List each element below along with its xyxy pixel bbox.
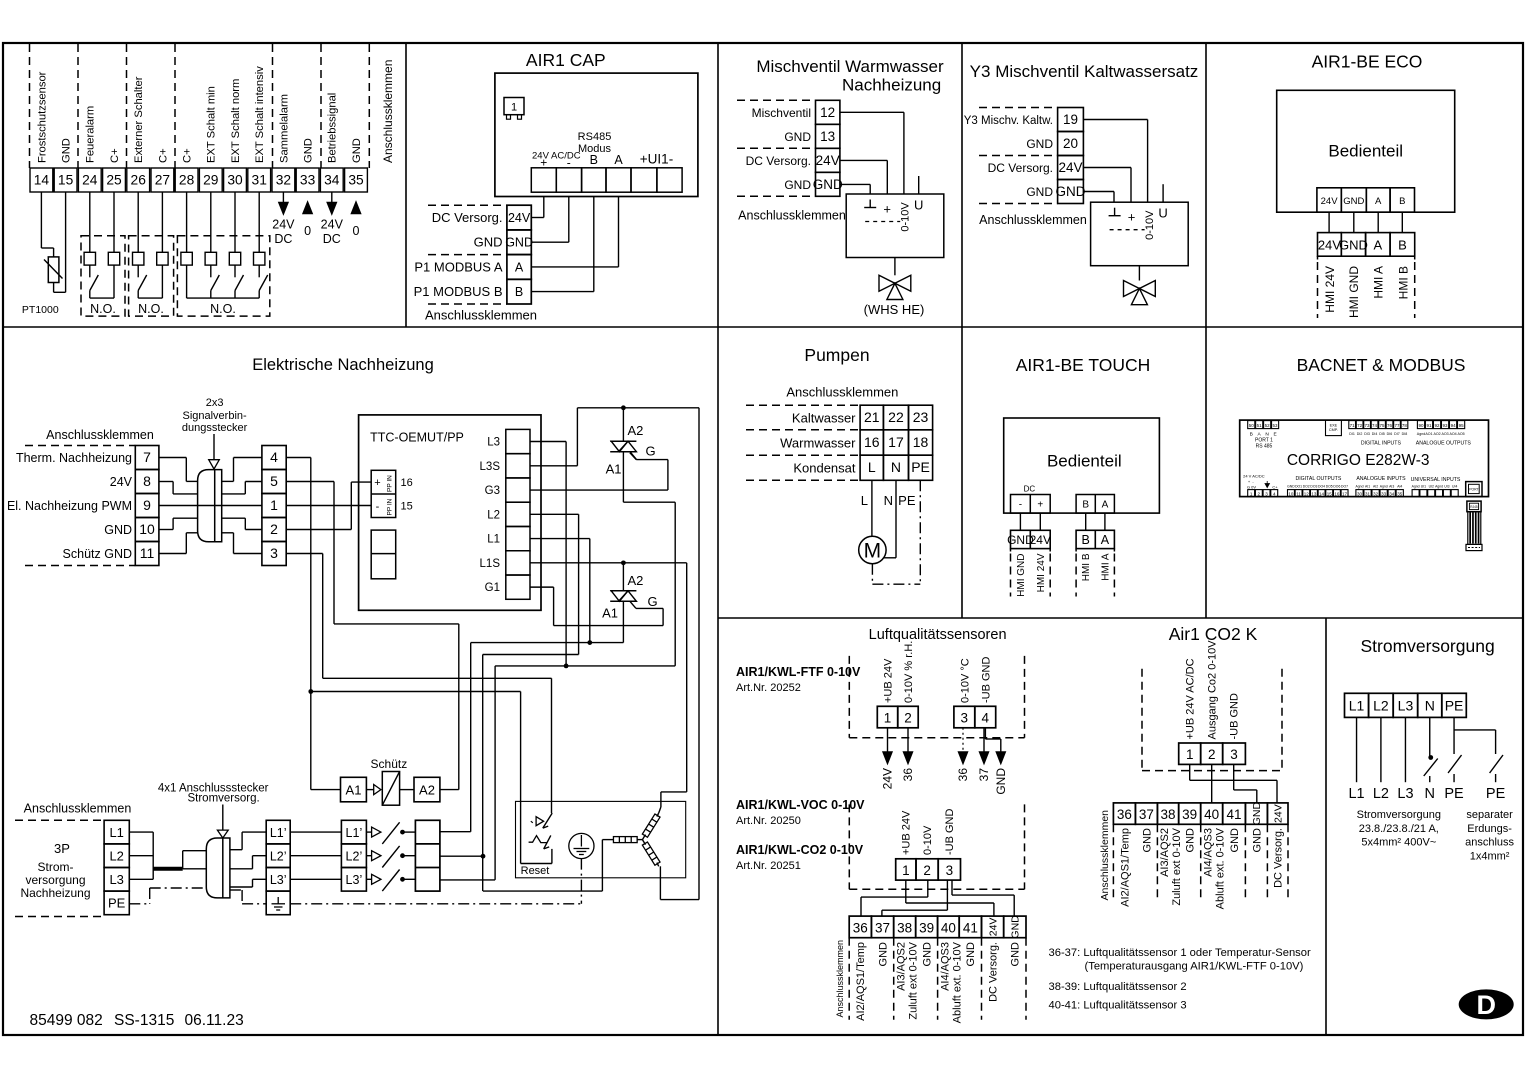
svg-text:5: 5 [270, 473, 278, 489]
svg-text:37: 37 [977, 768, 991, 782]
svg-text:Anschlussklemmen: Anschlussklemmen [24, 802, 132, 816]
svg-text:9: 9 [143, 497, 151, 513]
svg-text:85499 082: 85499 082 [30, 1012, 103, 1029]
svg-text:DO4: DO4 [1318, 484, 1325, 488]
svg-text:22: 22 [888, 409, 904, 425]
svg-text:Elektrische Nachheizung: Elektrische Nachheizung [252, 356, 434, 374]
svg-text:AIR1-BE TOUCH: AIR1-BE TOUCH [1016, 355, 1151, 375]
svg-text:DC Versorg.: DC Versorg. [746, 154, 811, 168]
svg-text:G3: G3 [485, 485, 500, 497]
svg-text:Ausgang Co2 0-10V: Ausgang Co2 0-10V [1207, 640, 1219, 740]
svg-text:23.8./23.8./21 A,: 23.8./23.8./21 A, [1359, 823, 1439, 835]
svg-text:C+: C+ [1272, 485, 1278, 490]
svg-text:+: + [1128, 210, 1136, 225]
svg-text:B: B [1082, 500, 1089, 511]
svg-text:38: 38 [897, 921, 912, 936]
svg-text:-UB GND: -UB GND [980, 657, 992, 704]
svg-text:PE: PE [898, 493, 916, 508]
svg-text:AI3/AQS2: AI3/AQS2 [896, 942, 908, 991]
svg-text:AI3/AQS2: AI3/AQS2 [1159, 828, 1171, 877]
svg-text:(Temperaturausgang AIR1/KWL-FT: (Temperaturausgang AIR1/KWL-FTF 0-10V) [1085, 960, 1304, 972]
svg-text:DO3: DO3 [1310, 484, 1317, 488]
svg-text:3P: 3P [54, 841, 70, 856]
svg-text:GND: GND [61, 138, 73, 163]
svg-text:10: 10 [139, 521, 155, 537]
svg-text:1: 1 [270, 497, 278, 513]
svg-text:36: 36 [956, 768, 970, 782]
svg-text:HMI A: HMI A [1100, 553, 1111, 581]
svg-text:19: 19 [1063, 112, 1078, 127]
svg-text:B: B [1399, 196, 1405, 207]
svg-text:DC Versorg.: DC Versorg. [987, 942, 999, 1002]
svg-text:Anschlussklemmen: Anschlussklemmen [1099, 810, 1111, 901]
svg-text:Anschlussklemmen: Anschlussklemmen [425, 308, 537, 323]
svg-text:Abluft ext. 0-10V: Abluft ext. 0-10V [951, 941, 963, 1023]
svg-text:35: 35 [1397, 491, 1403, 496]
svg-text:2x3: 2x3 [206, 397, 224, 409]
svg-text:+UB 24V: +UB 24V [882, 658, 894, 703]
svg-text:N: N [1425, 786, 1435, 802]
svg-text:DI5: DI5 [1379, 432, 1385, 436]
svg-text:L3: L3 [109, 872, 123, 887]
svg-text:1: 1 [884, 710, 892, 725]
svg-text:Anschlussklemmen: Anschlussklemmen [786, 385, 898, 400]
svg-text:2: 2 [1208, 747, 1216, 762]
svg-text:L1’: L1’ [346, 826, 363, 840]
svg-text:DC Versorg.: DC Versorg. [432, 210, 503, 225]
svg-text:24V: 24V [1318, 238, 1341, 253]
svg-text:31: 31 [252, 173, 267, 188]
svg-text:23: 23 [913, 409, 929, 425]
svg-text:PE: PE [108, 896, 126, 911]
svg-text:DC: DC [323, 232, 341, 246]
svg-text:GND: GND [1251, 828, 1263, 853]
svg-text:A: A [614, 153, 623, 167]
svg-text:E: E [1273, 431, 1276, 437]
svg-text:A: A [1102, 500, 1109, 511]
svg-text:HMI B: HMI B [1081, 553, 1092, 581]
svg-text:L: L [868, 459, 876, 475]
svg-text:24 V AC/DC: 24 V AC/DC [1243, 474, 1265, 479]
svg-text:Pumpen: Pumpen [804, 345, 869, 365]
svg-text:13: 13 [1311, 491, 1317, 496]
svg-text:7: 7 [143, 449, 151, 465]
svg-text:3: 3 [270, 545, 278, 561]
svg-text:SS-1315: SS-1315 [114, 1012, 174, 1029]
svg-text:EXE: EXE [1330, 424, 1338, 428]
svg-text:0: 0 [353, 224, 360, 238]
svg-text:A1: A1 [346, 782, 362, 797]
svg-text:15: 15 [401, 501, 413, 513]
svg-text:78: 78 [1402, 423, 1408, 428]
svg-text:29: 29 [203, 173, 219, 188]
svg-text:GND: GND [877, 942, 889, 967]
svg-text:AO1: AO1 [1425, 432, 1432, 436]
svg-text:36-37: Luftqualitätssensor 1 o: 36-37: Luftqualitätssensor 1 oder Temper… [1049, 947, 1312, 959]
svg-text:36: 36 [1117, 807, 1132, 822]
svg-text:24V: 24V [1321, 196, 1339, 207]
svg-text:N.O.: N.O. [138, 302, 164, 316]
svg-text:UI3: UI3 [1444, 484, 1449, 488]
svg-text:DI4: DI4 [1372, 432, 1378, 436]
svg-text:G: G [646, 444, 656, 459]
svg-text:90: 90 [1418, 423, 1424, 428]
svg-text:EXT Schalt min: EXT Schalt min [206, 86, 218, 163]
svg-text:C+: C+ [157, 148, 169, 163]
svg-text:12: 12 [820, 105, 835, 120]
svg-text:GND: GND [922, 942, 934, 967]
svg-text:24V: 24V [987, 918, 999, 937]
svg-text:50: 50 [1249, 423, 1255, 428]
svg-text:Anschlussklemmen: Anschlussklemmen [738, 209, 846, 223]
svg-text:A: A [1375, 196, 1382, 207]
svg-text:AI4/AQS3: AI4/AQS3 [939, 942, 951, 991]
svg-text:0-10V: 0-10V [1144, 210, 1156, 240]
svg-text:-UB GND: -UB GND [1228, 693, 1240, 740]
svg-text:5x4mm² 400V~: 5x4mm² 400V~ [1361, 837, 1436, 849]
svg-text:Art.Nr. 20252: Art.Nr. 20252 [736, 682, 801, 694]
svg-text:24V: 24V [1030, 533, 1051, 547]
svg-text:0: 0 [304, 224, 311, 238]
svg-text:Feueralarm: Feueralarm [85, 106, 97, 163]
svg-text:BACNET & MODBUS: BACNET & MODBUS [1297, 355, 1466, 375]
svg-text:A: A [1101, 533, 1110, 547]
svg-text:28: 28 [179, 173, 195, 188]
svg-text:L1: L1 [1349, 698, 1365, 714]
svg-text:24: 24 [82, 173, 98, 188]
svg-text:GND: GND [784, 130, 811, 144]
svg-text:74: 74 [1372, 423, 1378, 428]
svg-text:40: 40 [1204, 807, 1219, 822]
svg-text:3: 3 [1230, 747, 1238, 762]
svg-text:GND: GND [1287, 484, 1295, 488]
svg-text:24V: 24V [321, 218, 344, 232]
svg-text:UI1: UI1 [1421, 484, 1426, 488]
svg-text:AIR1-BE ECO: AIR1-BE ECO [1312, 52, 1423, 72]
svg-text:TTC-OEMUT/PP: TTC-OEMUT/PP [370, 431, 464, 445]
svg-text:38-39: Luftqualitätssensor 2: 38-39: Luftqualitätssensor 2 [1049, 981, 1187, 993]
svg-text:GND: GND [1339, 238, 1368, 253]
svg-text:Bedienteil: Bedienteil [1047, 452, 1122, 471]
svg-text:Signalverbin-: Signalverbin- [182, 410, 247, 422]
svg-text:Luftqualitätssensoren: Luftqualitätssensoren [869, 627, 1007, 643]
svg-text:13: 13 [820, 129, 835, 144]
svg-text:GND: GND [1026, 185, 1053, 199]
svg-text:A1: A1 [606, 462, 622, 477]
svg-text:DI1: DI1 [1349, 432, 1355, 436]
svg-text:GND: GND [1010, 942, 1022, 967]
svg-text:PE: PE [911, 459, 930, 475]
svg-text:Betriebssignal: Betriebssignal [327, 93, 339, 163]
svg-text:P1 MODBUS A: P1 MODBUS A [414, 259, 502, 274]
svg-text:12: 12 [1304, 491, 1310, 496]
svg-text:A2: A2 [628, 423, 644, 438]
svg-text:AIR1/KWL-CO2 0-10V: AIR1/KWL-CO2 0-10V [736, 843, 864, 857]
svg-text:AI2/AQS1/Temp: AI2/AQS1/Temp [855, 942, 867, 1021]
svg-text:0-10V % r.H.: 0-10V % r.H. [903, 641, 915, 703]
svg-text:AO4: AO4 [1449, 432, 1456, 436]
svg-text:0-10V: 0-10V [900, 202, 912, 232]
svg-text:34: 34 [1389, 491, 1395, 496]
svg-text:El. Nachheizung PWM: El. Nachheizung PWM [7, 499, 132, 513]
svg-text:33: 33 [300, 173, 316, 188]
svg-text:CMP.: CMP. [1329, 428, 1338, 432]
svg-text:AI3: AI3 [1389, 484, 1394, 488]
svg-text:1x4mm²: 1x4mm² [1470, 850, 1510, 862]
svg-text:GND: GND [303, 138, 315, 163]
svg-text:Therm. Nachheizung: Therm. Nachheizung [16, 451, 132, 465]
svg-text:71: 71 [1350, 423, 1356, 428]
svg-text:Warmwasser: Warmwasser [780, 435, 856, 450]
svg-text:DO1: DO1 [1295, 484, 1302, 488]
svg-text:A: A [1374, 238, 1383, 253]
svg-text:+: + [374, 477, 380, 489]
svg-text:AO3: AO3 [1441, 432, 1448, 436]
svg-text:L2: L2 [1373, 786, 1389, 802]
svg-text:(WHS HE): (WHS HE) [864, 302, 925, 317]
svg-text:Erdungs-: Erdungs- [1467, 823, 1512, 835]
svg-text:GND: GND [813, 177, 843, 192]
svg-text:versorgung: versorgung [25, 873, 85, 887]
svg-text:DO5: DO5 [1326, 484, 1333, 488]
svg-text:35: 35 [348, 173, 364, 188]
svg-text:M: M [864, 540, 882, 563]
svg-text:RS485: RS485 [578, 131, 612, 143]
svg-text:separater: separater [1466, 809, 1513, 821]
svg-text:75: 75 [1379, 423, 1385, 428]
svg-text:+: + [1037, 500, 1043, 511]
svg-text:Externer Schalter: Externer Schalter [133, 76, 145, 163]
svg-text:Anschlussklemmen: Anschlussklemmen [381, 60, 395, 163]
svg-text:36: 36 [901, 768, 915, 782]
svg-text:37: 37 [1139, 807, 1154, 822]
svg-text:53: 53 [1273, 423, 1279, 428]
svg-text:0-10V °C: 0-10V °C [959, 658, 971, 703]
svg-text:Agnd: Agnd [1412, 484, 1420, 488]
svg-text:2: 2 [904, 710, 912, 725]
svg-text:-: - [1019, 500, 1022, 511]
svg-text:L1S: L1S [480, 558, 501, 570]
svg-text:Stromversorgung: Stromversorgung [1360, 636, 1494, 656]
svg-text:-: - [376, 501, 380, 513]
svg-text:L3’: L3’ [346, 873, 363, 887]
svg-text:14: 14 [34, 173, 50, 188]
svg-text:L2’: L2’ [346, 849, 363, 863]
svg-text:24V: 24V [508, 211, 531, 225]
svg-text:36: 36 [853, 921, 868, 936]
svg-text:Kaltwasser: Kaltwasser [792, 411, 856, 426]
svg-text:CORRIGO E282W-3: CORRIGO E282W-3 [1287, 452, 1430, 469]
svg-text:10: 10 [1288, 491, 1294, 496]
svg-text:24V: 24V [1058, 160, 1082, 175]
svg-text:HMI GND: HMI GND [1016, 554, 1027, 597]
svg-text:Mischventil Warmwasser: Mischventil Warmwasser [756, 57, 944, 76]
svg-text:Reset: Reset [521, 865, 550, 877]
svg-text:DC Versorg.: DC Versorg. [988, 161, 1053, 175]
svg-text:24V: 24V [110, 475, 133, 489]
svg-text:L1: L1 [487, 534, 500, 546]
svg-text:Schütz: Schütz [371, 757, 408, 771]
svg-text:24V: 24V [816, 153, 840, 168]
svg-text:Frostschutzsensor: Frostschutzsensor [36, 71, 48, 163]
svg-text:52: 52 [1265, 423, 1271, 428]
svg-text:B: B [1398, 238, 1407, 253]
svg-text:31: 31 [1365, 491, 1371, 496]
svg-text:32: 32 [276, 173, 291, 188]
svg-text:AI4/AQS3: AI4/AQS3 [1203, 828, 1215, 877]
svg-text:GND: GND [1251, 802, 1263, 826]
svg-text:15: 15 [1327, 491, 1333, 496]
svg-text:HMI 24V: HMI 24V [1036, 553, 1047, 592]
svg-text:EXT Schalt norm: EXT Schalt norm [230, 79, 242, 163]
svg-text:GND: GND [994, 768, 1008, 795]
svg-text:15: 15 [58, 173, 74, 188]
svg-text:18: 18 [913, 434, 929, 450]
svg-text:16: 16 [864, 434, 880, 450]
svg-text:GND: GND [505, 236, 533, 250]
svg-text:Anschlussklemmen: Anschlussklemmen [979, 213, 1087, 227]
svg-text:Nachheizung: Nachheizung [842, 76, 941, 95]
svg-text:GND: GND [351, 138, 363, 163]
svg-text:HMI A: HMI A [1372, 266, 1386, 299]
svg-text:N.O.: N.O. [90, 302, 116, 316]
svg-text:Zuluft ext 0-10V: Zuluft ext 0-10V [908, 941, 920, 1019]
svg-text:A2: A2 [628, 573, 644, 588]
svg-text:L: L [861, 493, 868, 508]
svg-text:DO6: DO6 [1333, 484, 1340, 488]
svg-text:+UI1-: +UI1- [640, 152, 673, 167]
svg-text:20: 20 [1063, 136, 1078, 151]
svg-text:24V: 24V [1272, 804, 1284, 823]
svg-text:39: 39 [919, 921, 934, 936]
svg-text:30: 30 [1357, 491, 1363, 496]
svg-text:L3: L3 [1398, 698, 1414, 714]
svg-text:GND: GND [1141, 828, 1153, 853]
svg-text:+UB 24V: +UB 24V [901, 810, 913, 855]
svg-text:AIR1/KWL-VOC 0-10V: AIR1/KWL-VOC 0-10V [736, 798, 865, 812]
svg-text:27: 27 [155, 173, 170, 188]
svg-text:L1’: L1’ [270, 826, 287, 840]
svg-text:Strom-: Strom- [38, 860, 74, 874]
svg-text:Stromversorgung: Stromversorgung [1357, 809, 1441, 821]
svg-text:L1: L1 [1348, 786, 1364, 802]
svg-text:39: 39 [1182, 807, 1197, 822]
svg-text:72: 72 [1357, 423, 1363, 428]
svg-text:91: 91 [1427, 423, 1433, 428]
svg-text:PP IN: PP IN [386, 475, 393, 492]
svg-text:2: 2 [270, 521, 278, 537]
svg-text:C+: C+ [109, 148, 121, 163]
svg-text:dungsstecker: dungsstecker [182, 422, 248, 434]
svg-text:Agnd: Agnd [1417, 432, 1425, 436]
svg-text:Abluft ext. 0-10V: Abluft ext. 0-10V [1215, 827, 1227, 909]
svg-text:GND: GND [104, 523, 132, 537]
svg-text:AI1: AI1 [1365, 484, 1370, 488]
svg-text:+: + [883, 202, 891, 217]
svg-text:14: 14 [1319, 491, 1325, 496]
svg-text:DC Versorg.: DC Versorg. [1273, 828, 1285, 888]
svg-text:Agnd: Agnd [1356, 484, 1364, 488]
svg-text:Anschlussklemmen: Anschlussklemmen [46, 428, 154, 442]
svg-text:B: B [1082, 533, 1090, 547]
svg-text:4: 4 [981, 710, 989, 725]
svg-text:A: A [515, 260, 524, 274]
svg-text:24V: 24V [881, 768, 895, 789]
svg-text:0-10V: 0-10V [922, 825, 934, 855]
svg-text:Sammelalarm: Sammelalarm [278, 94, 290, 163]
svg-text:UI4: UI4 [1452, 484, 1457, 488]
svg-text:16: 16 [1334, 491, 1340, 496]
svg-text:32: 32 [1373, 491, 1379, 496]
svg-text:33: 33 [1381, 491, 1387, 496]
svg-text:+UB 24V AC/DC: +UB 24V AC/DC [1185, 658, 1197, 739]
svg-text:26: 26 [131, 173, 147, 188]
svg-text:1: 1 [511, 102, 517, 114]
svg-text:A2: A2 [419, 782, 435, 797]
svg-text:N: N [891, 459, 901, 475]
svg-text:DI3: DI3 [1364, 432, 1370, 436]
svg-text:51: 51 [1257, 423, 1263, 428]
svg-text:N: N [1265, 431, 1269, 437]
svg-text:N: N [884, 493, 893, 508]
svg-text:Art.Nr. 20250: Art.Nr. 20250 [736, 815, 801, 827]
svg-text:G: G [648, 594, 658, 609]
svg-text:B: B [590, 153, 598, 167]
svg-text:GND: GND [1056, 184, 1086, 199]
svg-text:AIR1 CAP: AIR1 CAP [526, 50, 606, 70]
svg-text:Y3 Mischv. Kaltw.: Y3 Mischv. Kaltw. [964, 115, 1053, 127]
svg-text:L3S: L3S [480, 461, 501, 473]
svg-text:-UB GND: -UB GND [944, 809, 956, 856]
svg-text:73: 73 [1365, 423, 1371, 428]
svg-text:anschluss: anschluss [1465, 837, 1514, 849]
svg-text:41: 41 [963, 921, 978, 936]
svg-text:EXT Schalt intensiv: EXT Schalt intensiv [254, 66, 266, 163]
svg-text:ANALOGUE OUTPUTS: ANALOGUE OUTPUTS [1416, 440, 1472, 446]
svg-text:PE: PE [1445, 698, 1464, 714]
svg-text:N.O.: N.O. [210, 302, 236, 316]
svg-text:L2’: L2’ [270, 849, 287, 863]
svg-text:GND: GND [1185, 828, 1197, 853]
svg-text:D: D [1476, 990, 1496, 1020]
svg-text:HMI GND: HMI GND [1347, 266, 1361, 318]
svg-text:95: 95 [1459, 423, 1465, 428]
svg-text:HMI B: HMI B [1396, 266, 1410, 299]
svg-text:3: 3 [961, 710, 969, 725]
svg-text:AI2: AI2 [1373, 484, 1378, 488]
svg-text:16: 16 [401, 477, 413, 489]
svg-text:77: 77 [1394, 423, 1400, 428]
svg-text:Kondensat: Kondensat [793, 461, 856, 476]
svg-text:DI8: DI8 [1402, 432, 1408, 436]
svg-text:DI6: DI6 [1387, 432, 1393, 436]
svg-text:ANALOGUE INPUTS: ANALOGUE INPUTS [1356, 476, 1406, 482]
svg-text:93: 93 [1443, 423, 1449, 428]
svg-text:1: 1 [1186, 747, 1194, 762]
svg-text:G1: G1 [485, 582, 500, 594]
svg-text:Agnd: Agnd [1380, 484, 1388, 488]
svg-text:PE: PE [1486, 786, 1506, 802]
svg-text:GND: GND [1010, 915, 1022, 939]
svg-text:U: U [914, 198, 923, 213]
svg-text:Bedienteil: Bedienteil [1328, 142, 1403, 161]
svg-text:L1: L1 [109, 825, 123, 840]
svg-text:AI4: AI4 [1397, 484, 1402, 488]
svg-text:GND: GND [1229, 828, 1241, 853]
svg-text:AO2: AO2 [1433, 432, 1440, 436]
svg-text:RS 485: RS 485 [1256, 444, 1273, 450]
svg-text:DC: DC [274, 232, 292, 246]
